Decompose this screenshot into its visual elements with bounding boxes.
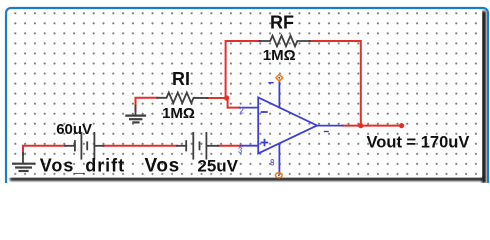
svg-text:3: 3 [238,146,243,155]
svg-text:2: 2 [239,107,244,116]
svg-text:RF: RF [270,13,294,33]
svg-text:Vos: Vos [145,156,180,177]
svg-text:25uV: 25uV [197,156,238,175]
svg-text:1MΩ: 1MΩ [162,105,195,122]
svg-text:RI: RI [172,69,190,89]
svg-text:Vos_drift: Vos_drift [40,156,125,176]
svg-text:Vout = 170uV: Vout = 170uV [367,134,470,152]
svg-text:60uV: 60uV [56,121,92,138]
svg-text:1MΩ: 1MΩ [263,47,296,64]
